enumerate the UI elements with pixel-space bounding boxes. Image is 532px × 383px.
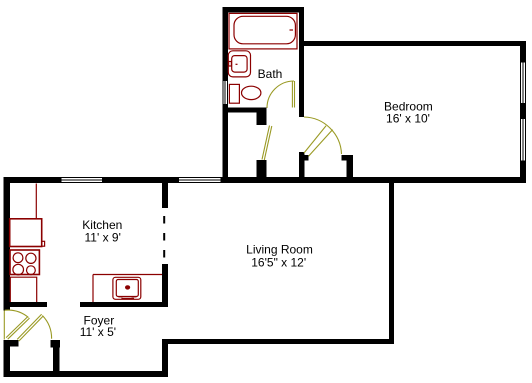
wall: bath left lower bbox=[222, 104, 228, 183]
wall: bedroom right middle bbox=[520, 103, 526, 119]
fixture: kitchen sink drain dot bbox=[126, 286, 130, 289]
wall: main horizontal band segment B bbox=[102, 177, 179, 183]
wall: foyer bottom bbox=[4, 371, 169, 377]
wall: bath top bbox=[222, 7, 304, 13]
fixture: bath sink inner bbox=[232, 56, 247, 73]
door D4 entry: swing arc bbox=[5, 310, 29, 317]
fixture: refrigerator handle bbox=[42, 241, 45, 246]
fixture: stove burner BR bbox=[27, 266, 36, 275]
wall: bedroom right upper bbox=[520, 41, 526, 62]
wall: bedroom right lower bbox=[520, 161, 526, 184]
door D5 entry second: swing arc bbox=[42, 316, 51, 339]
window W5 bedroom right wall lower bbox=[519, 119, 521, 161]
wall: kitchen divider bottom bbox=[162, 264, 168, 307]
wall: bath bottom bbox=[222, 108, 266, 113]
fixture: kitchen counter 1 edge bbox=[35, 184, 37, 219]
wall: bedroom door stub right vertical bbox=[346, 155, 353, 183]
wall: main horizontal band segment A bbox=[4, 177, 62, 183]
fixture: bathtub drain bbox=[290, 29, 294, 31]
fixture: bathtub bbox=[234, 16, 295, 44]
fixture: tub deck bbox=[229, 13, 297, 49]
wall: entry stub left bbox=[4, 340, 19, 346]
wall: step wall foyer/living bbox=[162, 339, 168, 377]
fixture: stove burner TL bbox=[13, 253, 23, 263]
fixture: toilet bowl bbox=[242, 86, 261, 99]
door D1 bath: swing arc bbox=[267, 81, 294, 108]
wall: closet stub upper bbox=[257, 113, 267, 125]
wall: entry right pier vertical bbox=[53, 348, 60, 378]
svg-text:16' x 10': 16' x 10' bbox=[386, 112, 430, 126]
wall: foyer top right bbox=[80, 302, 168, 307]
svg-text:11' x 9': 11' x 9' bbox=[85, 230, 121, 244]
wall: kitchen divider top bbox=[162, 183, 168, 208]
wall: bedroom top bbox=[304, 41, 526, 46]
fixture: stove burner TR bbox=[26, 253, 36, 263]
fixture: bath sink outer bbox=[228, 51, 250, 77]
fixture: kitchen sink faucet bbox=[121, 297, 134, 299]
fixture: toilet tank bbox=[229, 84, 239, 103]
wall: bath left upper bbox=[222, 7, 228, 81]
wall: left exterior bottom bbox=[4, 340, 10, 377]
door D3 closet: leaf bbox=[262, 126, 270, 160]
window W4 bedroom right wall upper bbox=[519, 62, 521, 103]
door D4 entry: closed-position line bbox=[3, 311, 5, 340]
fixture: kitchen counter 2 bbox=[10, 277, 36, 302]
wall: entry right pier bar bbox=[51, 340, 61, 347]
fixture: kitchen sink inner bbox=[116, 280, 138, 297]
wall: main horizontal band segment C bbox=[220, 177, 526, 183]
door D2 bedroom: swing arc bbox=[304, 117, 342, 154]
svg-text:Bath: Bath bbox=[258, 67, 283, 81]
fixture: sink counter top edge bbox=[93, 274, 162, 276]
fixture: stove burner BL bbox=[13, 264, 24, 275]
wall: foyer top left stub bbox=[4, 302, 47, 307]
wall: bath right bbox=[299, 7, 304, 117]
door D5 entry second: leaf bbox=[17, 314, 41, 339]
dashed opening: kitchen/living divider bbox=[163, 216, 165, 258]
wall: left exterior bbox=[4, 177, 10, 311]
door D2 bedroom: leaf bbox=[304, 126, 326, 153]
window W2 living top wall bbox=[179, 177, 220, 179]
wall: living room right bbox=[389, 183, 394, 344]
window W3 bath left wall bbox=[222, 81, 224, 104]
fixture: kitchen sink outer bbox=[113, 277, 141, 299]
fixture: refrigerator bbox=[10, 219, 42, 247]
door D4 entry: leaf bbox=[6, 317, 28, 338]
fixture: bath sink drain bbox=[236, 63, 238, 65]
fixture: bath sink tap bbox=[229, 62, 232, 67]
fixture: stove outline bbox=[10, 250, 39, 275]
wall: closet stub lower bbox=[257, 160, 267, 183]
wall: living room bottom bbox=[162, 339, 394, 344]
wall: bedroom door stub right bar bbox=[342, 155, 353, 160]
door D1 bath: leaf bbox=[291, 81, 293, 108]
wall: bedroom door stub left bump bbox=[304, 155, 308, 160]
svg-text:11' x 5': 11' x 5' bbox=[80, 325, 116, 339]
window W1 kitchen top wall bbox=[62, 177, 102, 179]
fixture: sink counter left edge bbox=[92, 275, 94, 303]
svg-text:16'5" x 12': 16'5" x 12' bbox=[251, 255, 306, 269]
wall: bedroom door stub left bbox=[299, 152, 304, 183]
